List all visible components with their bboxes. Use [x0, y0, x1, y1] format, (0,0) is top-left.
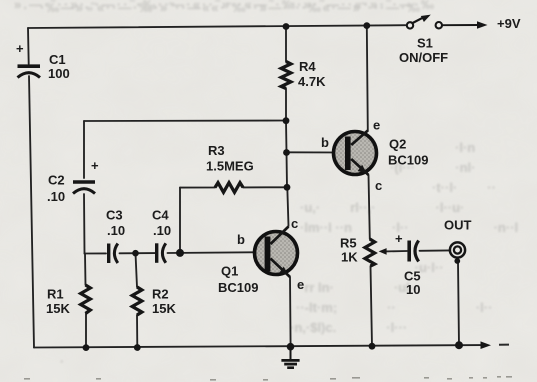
wire C4 to Q1 base [168, 251, 266, 254]
wire Q1 emitter vertical [289, 277, 292, 347]
wire C2 to coupling node [83, 194, 86, 254]
svg-text:C4: C4 [152, 208, 169, 223]
wire R4 top lead [285, 27, 287, 62]
node top rail / R4 [283, 23, 290, 30]
wire R2 drop [136, 253, 138, 287]
svg-text:BC109: BC109 [218, 280, 258, 295]
svg-text:4.7K: 4.7K [298, 74, 326, 89]
transistor Q1 BC109 [218, 216, 304, 295]
+9V supply arrow [442, 16, 521, 31]
node Q2 base tap [283, 149, 290, 156]
node R3 / Q1 collector [284, 184, 291, 191]
svg-text:BC109: BC109 [388, 153, 428, 168]
resistor R2 15K [132, 287, 176, 317]
wire C5 to OUT jack [420, 249, 451, 251]
svg-text:1K: 1K [341, 250, 358, 265]
wire mid bias feed horizontal [84, 120, 286, 123]
node R4 / bias feed [283, 117, 290, 124]
svg-text:ON/OFF: ON/OFF [399, 50, 448, 65]
wire bottom rail [34, 345, 482, 347]
svg-text:C2: C2 [48, 173, 65, 188]
resistor R3 1.5MEG [206, 143, 254, 192]
svg-text:+9V: +9V [497, 16, 521, 31]
bottom rail ground-return arrow [481, 341, 510, 349]
node bottom rail / R2 [134, 344, 141, 351]
wire Q1 collector vertical [287, 187, 288, 226]
svg-text:c: c [291, 216, 298, 231]
svg-text:C3: C3 [106, 208, 123, 223]
svg-text:Q1: Q1 [221, 264, 238, 279]
capacitor C3 (.10) [106, 208, 125, 264]
svg-text:e: e [297, 277, 304, 292]
wire Q2 base horizontal [287, 151, 347, 153]
wire R3 left lead [180, 187, 215, 189]
node coupling / R2 [132, 250, 139, 257]
bleed-through faint text top edge [14, 0, 434, 15]
wire Q2 collector down to R5 [369, 175, 370, 239]
wire R4 bottom lead to node [285, 89, 287, 121]
wire R2 bottom lead [136, 315, 138, 348]
wire R1 drop [84, 254, 87, 286]
node bottom rail / OUT drop [455, 341, 463, 349]
capacitor C4 (.10) [152, 208, 171, 263]
svg-text:15K: 15K [152, 301, 176, 316]
switch S1 ON/OFF [399, 15, 448, 65]
wire OUT jack drop [458, 262, 459, 345]
capacitor C5 (electrolytic, 10uF) [395, 231, 421, 297]
node bottom rail / R1 [83, 344, 90, 351]
wire C2 branch top [83, 121, 85, 178]
wire node Q2-base to R3 node [286, 153, 289, 188]
node coupling / R3 stub [176, 249, 184, 257]
svg-text:·: · [60, 354, 64, 369]
svg-text:+: + [16, 41, 24, 56]
wire R3 left stub vertical [179, 188, 181, 253]
svg-text:+: + [91, 158, 99, 173]
resistor R4 4.7K [281, 59, 326, 89]
svg-text:·‰—»·˜«··—·‰·»˜··—««·˜‰··»—·˜·: ·‰—»·˜«··—·‰·»˜··—««·˜‰··»—·˜··‰«·—»˜···… [40, 0, 420, 15]
svg-text:e: e [373, 118, 380, 133]
svg-text:15K: 15K [46, 301, 70, 316]
svg-text:b: b [237, 232, 245, 247]
capacitor C1 (electrolytic, 100uF) [16, 41, 70, 81]
wire top rail +9V [28, 25, 406, 28]
resistor R1 15K [46, 285, 90, 316]
svg-text:R3: R3 [208, 143, 225, 158]
node bottom rail / R5 [369, 343, 376, 350]
svg-text:.10: .10 [47, 189, 65, 204]
svg-text:c: c [375, 178, 382, 193]
wire left rail upper (to C1) [27, 28, 30, 64]
svg-text:1.5MEG: 1.5MEG [206, 159, 254, 174]
svg-text:R1: R1 [47, 287, 64, 302]
wire R5 bottom lead [371, 266, 373, 346]
wire C3 to R2 node [120, 252, 156, 254]
resistor R5 1K (with wiper arrow) [340, 236, 387, 267]
OUT jack [444, 218, 472, 264]
svg-text:C1: C1 [49, 52, 66, 67]
wire R5 wiper to C5 [385, 250, 407, 252]
svg-text:100: 100 [48, 66, 70, 81]
node top rail / Q2 drop [363, 22, 370, 29]
svg-text:S1: S1 [417, 36, 433, 51]
svg-text:+: + [395, 231, 403, 246]
wire R3 right lead [243, 186, 287, 188]
wire Q2 rail drop (to emitter) [367, 26, 368, 132]
svg-text:R2: R2 [152, 287, 169, 302]
svg-text:·l·n: ·l·n [455, 140, 475, 155]
capacitor C2 (electrolytic, .10) [47, 158, 99, 204]
wire left rail lower (C1 to bottom rail) [29, 76, 34, 348]
transistor Q2 BC109 [321, 118, 428, 194]
svg-text:b: b [321, 135, 329, 150]
svg-text:.10: .10 [153, 223, 171, 238]
bleed-through faint text right/bottom area [60, 140, 518, 369]
wire coupling line C3 segment [85, 252, 107, 254]
svg-text:R5: R5 [340, 236, 357, 251]
svg-text:10: 10 [406, 282, 420, 297]
svg-text:OUT: OUT [444, 218, 472, 233]
ground symbol [281, 347, 299, 368]
bleed caption dashes bottom edge [24, 376, 512, 381]
svg-text:R4: R4 [299, 59, 316, 74]
svg-text:.10: .10 [107, 223, 125, 238]
wire R1 bottom lead [85, 314, 87, 348]
node bottom rail / ground [287, 343, 295, 351]
wire node R4/Q2-base segment [285, 121, 288, 153]
svg-text:Q2: Q2 [389, 137, 406, 152]
